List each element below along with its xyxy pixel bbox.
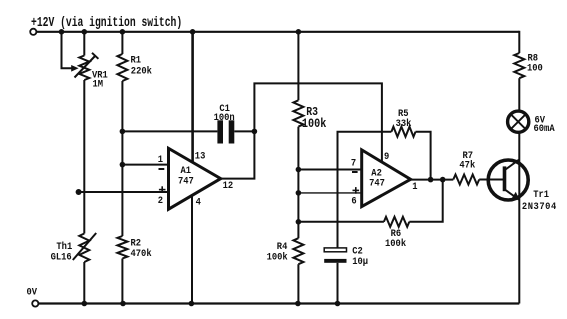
svg-text:4: 4 bbox=[196, 196, 201, 208]
wire A1 pin13 bbox=[191, 32, 194, 163]
wire R8 to lamp bbox=[518, 78, 520, 110]
svg-text:47k: 47k bbox=[459, 159, 475, 171]
svg-text:100k: 100k bbox=[302, 118, 327, 131]
resistor R3 bbox=[293, 100, 303, 126]
op-amp A1 747 bbox=[169, 148, 221, 209]
svg-text:747: 747 bbox=[178, 175, 194, 187]
svg-text:33k: 33k bbox=[396, 118, 412, 130]
svg-text:100k: 100k bbox=[267, 251, 288, 263]
wiper arrowhead bbox=[71, 65, 78, 72]
node 0V terminal bbox=[32, 300, 38, 306]
wire VR1 to node bbox=[83, 80, 85, 234]
resistor R1 bbox=[117, 54, 127, 81]
node pin4 bottom rail bbox=[189, 301, 195, 307]
VR1 shaft bbox=[75, 56, 96, 78]
node R1/C1 junction bbox=[120, 129, 126, 135]
wire R5 right bbox=[416, 132, 431, 180]
node pin13 rail dot bbox=[190, 29, 196, 35]
svg-text:100: 100 bbox=[527, 62, 543, 74]
wire rail to VR1 bbox=[83, 32, 85, 56]
wire A1 pin4 bbox=[191, 196, 193, 304]
node R3/pin7 junction bbox=[296, 167, 302, 173]
svg-text:100n: 100n bbox=[214, 111, 235, 123]
svg-text:747: 747 bbox=[369, 177, 385, 189]
svg-text:1: 1 bbox=[412, 180, 417, 192]
capacitor C2 minus plate bbox=[324, 259, 346, 263]
wire A1 pin1 input bbox=[122, 164, 168, 166]
wire C2 to 0V bbox=[337, 263, 339, 304]
resistor R6 bbox=[384, 217, 409, 227]
node R1 rail dot bbox=[120, 29, 126, 35]
node C1/A1out junction bbox=[252, 129, 258, 135]
svg-text:6: 6 bbox=[351, 195, 356, 207]
wire R2 to 0V bbox=[121, 259, 123, 304]
VR1 shaft T-bar bbox=[92, 53, 98, 59]
svg-text:2: 2 bbox=[158, 195, 163, 207]
svg-text:1: 1 bbox=[158, 154, 163, 166]
svg-text:220k: 220k bbox=[131, 65, 152, 77]
node VR1/Th1 junction bbox=[76, 189, 82, 195]
capacitor C1 bbox=[217, 120, 223, 143]
resistor R7 bbox=[453, 175, 479, 185]
svg-text:60mA: 60mA bbox=[534, 123, 555, 135]
node Th1 bottom rail bbox=[82, 301, 88, 307]
svg-text:100k: 100k bbox=[385, 238, 406, 250]
node VR1 rail dots bbox=[59, 29, 65, 35]
op-amp A2 747 bbox=[362, 150, 411, 207]
svg-text:13: 13 bbox=[195, 150, 206, 162]
wire R5 left bbox=[338, 132, 392, 248]
node R3/R6 junction bbox=[296, 219, 302, 225]
node R3 rail dot bbox=[296, 29, 302, 35]
transistor Tr1 2N3704 bbox=[488, 160, 528, 200]
wire C1 to output node bbox=[234, 130, 254, 132]
node C2 bottom rail bbox=[335, 301, 341, 307]
wire lamp to collector bbox=[518, 133, 520, 304]
svg-text:10μ: 10μ bbox=[352, 255, 368, 267]
potentiometer VR1 bbox=[79, 56, 89, 81]
resistor R2 bbox=[117, 236, 127, 259]
wire R1 to R2 bbox=[121, 81, 123, 236]
wire A2 output bbox=[411, 179, 454, 181]
node +12V terminal bbox=[30, 29, 36, 35]
wire R3 to R4 bbox=[297, 127, 299, 239]
resistor R5 bbox=[391, 127, 415, 137]
node R6/output junction bbox=[440, 177, 446, 183]
wire divider to C1 bbox=[122, 130, 217, 132]
lamp LP1 6V 60mA bbox=[508, 111, 529, 132]
node R2 bottom rail bbox=[120, 301, 126, 307]
wire A2 pin6 input bbox=[298, 192, 361, 194]
wire Th1 to 0V bbox=[83, 262, 85, 304]
wire 0V bottom rail bbox=[36, 302, 520, 304]
wire R7 to base bbox=[479, 179, 503, 181]
wire A1 pin2 input bbox=[77, 191, 168, 193]
node R3/pin6 junction bbox=[296, 190, 302, 196]
capacitor C2 plus plate bbox=[324, 248, 346, 252]
node R5/output junction bbox=[428, 177, 434, 183]
svg-text:9: 9 bbox=[384, 151, 389, 163]
wire +12V top rail bbox=[37, 31, 520, 33]
svg-text:1M: 1M bbox=[93, 78, 104, 90]
svg-text:+12V (via ignition switch): +12V (via ignition switch) bbox=[31, 14, 182, 30]
wire A1out to A2 pin9 bbox=[254, 83, 382, 162]
wire rail to R1 bbox=[121, 32, 123, 54]
wire rail to R3 bbox=[297, 32, 299, 101]
svg-text:2N3704: 2N3704 bbox=[522, 200, 557, 212]
svg-text:Tr1: Tr1 bbox=[533, 188, 549, 200]
wire right rail top bbox=[518, 31, 520, 53]
node R1/pin1 junction bbox=[120, 162, 126, 168]
svg-text:R1: R1 bbox=[131, 54, 142, 66]
wire R6 right bbox=[409, 180, 442, 222]
svg-text:470k: 470k bbox=[131, 247, 152, 259]
wire R4 to 0V bbox=[297, 264, 299, 303]
A1 minus sign bbox=[159, 168, 165, 170]
resistor R4 bbox=[293, 238, 303, 264]
A2 plus sign bbox=[353, 189, 360, 191]
svg-text:0V: 0V bbox=[27, 286, 38, 298]
wire A1 output bbox=[221, 131, 255, 178]
A1 plus sign bbox=[159, 189, 166, 191]
Th1 strike line bbox=[73, 233, 96, 260]
svg-text:7: 7 bbox=[351, 157, 356, 169]
svg-text:GL16: GL16 bbox=[51, 251, 72, 263]
wire A2 pin7 input bbox=[298, 169, 361, 171]
thermistor Th1 bbox=[79, 234, 89, 263]
resistor R8 bbox=[514, 53, 524, 78]
wire VR1 wiper from rail bbox=[62, 32, 74, 69]
svg-text:12: 12 bbox=[223, 179, 234, 191]
node R4 bottom rail bbox=[295, 301, 301, 307]
A2 minus sign bbox=[352, 171, 358, 173]
wire R6 left bbox=[298, 221, 384, 223]
